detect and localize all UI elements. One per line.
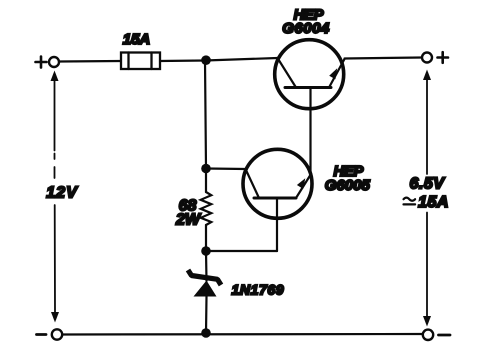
wire terminal to fuse: [60, 60, 122, 63]
svg-text:12V: 12V: [46, 185, 78, 202]
node C junction dot: [201, 246, 211, 256]
bottom rail wire: [63, 333, 423, 336]
output - terminal circle: [423, 330, 433, 340]
resistor R1 68 ohm zigzag: [201, 192, 212, 225]
output voltage dimension line 6.5V: [426, 78, 428, 317]
wire node C to zener: [205, 251, 208, 281]
wire resistor to node C: [205, 225, 207, 251]
input dimension up arrowhead: [51, 71, 59, 82]
svg-text:6.5V: 6.5V: [410, 176, 446, 193]
wire Q2 base to node C: [207, 250, 278, 252]
Q2 base lead down: [276, 198, 278, 251]
transistor Q1 HEP G6004 circle: [275, 40, 344, 109]
output + terminal circle: [422, 53, 432, 63]
Q1 emitter diagonal: [329, 59, 345, 88]
Q2 collector diagonal: [246, 169, 260, 198]
Q1 base bar: [285, 86, 331, 89]
input - terminal circle: [52, 329, 62, 339]
svg-text:2W: 2W: [175, 212, 202, 229]
wire node A down to node B: [205, 61, 206, 169]
input + terminal circle: [49, 57, 59, 67]
Q2 base bar: [254, 197, 296, 200]
bottom rail junction dot: [201, 328, 211, 338]
input minus sign: [37, 333, 47, 336]
output dimension down arrowhead: [423, 316, 431, 327]
wire zener to bottom rail: [205, 297, 208, 334]
approx-equal symbol before 15A: [404, 198, 416, 201]
input plus sign: [36, 57, 47, 68]
svg-text:G6005: G6005: [325, 177, 371, 194]
svg-text:1N1769: 1N1769: [232, 282, 285, 298]
transistor Q2 HEP G6005 circle: [243, 149, 312, 218]
node B junction dot: [201, 164, 211, 174]
Q1 base lead wire down to Q2: [309, 88, 311, 175]
zener diode D1 anode triangle: [194, 281, 217, 297]
output minus sign: [439, 334, 451, 337]
input dimension down arrowhead: [51, 312, 59, 323]
wire node B down to resistor: [205, 169, 207, 193]
wire node A to Q1 collector: [205, 58, 278, 61]
wire node B to Q2 collector: [206, 167, 246, 170]
zener diode D1 cathode bar: [188, 270, 221, 285]
output dimension up arrowhead: [423, 70, 431, 81]
node A junction dot: [201, 55, 211, 65]
svg-text:G6004: G6004: [282, 20, 330, 37]
Q1 collector diagonal: [278, 58, 297, 88]
Q2 emitter arrowhead: [297, 178, 305, 189]
input voltage dimension line 12V: [54, 79, 57, 313]
svg-text:15A: 15A: [418, 194, 449, 211]
fuse F1 15A body: [121, 53, 160, 70]
output plus sign: [438, 52, 449, 63]
Q2 emitter diagonal: [296, 174, 311, 198]
wire fuse to node A: [160, 59, 205, 62]
wire Q1 emitter to output terminal: [345, 58, 423, 59]
Q1 emitter arrowhead: [329, 68, 337, 79]
svg-text:15A: 15A: [123, 31, 151, 48]
